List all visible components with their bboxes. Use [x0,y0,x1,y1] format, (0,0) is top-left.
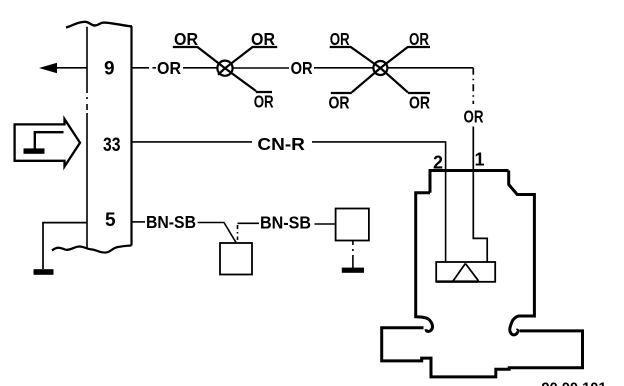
junction dashed drop to box B1 [237,225,239,240]
wire corner down dash-dot [472,68,474,104]
wire junction to second BN-SB label [238,222,260,224]
connector strip left edge [86,27,88,248]
solenoid valve bracket base outline [382,328,583,377]
svg-text:5: 5 [105,210,116,231]
solenoid coil box [436,262,495,282]
svg-text:1: 1 [475,150,485,170]
splice S1 circle [217,61,232,76]
svg-text:OR: OR [157,58,181,78]
splice S1 branch top-right [225,47,277,68]
box B1 (connector block) [220,243,252,275]
connector strip torn bottom edge [52,246,132,253]
ground G1 bar [34,269,54,275]
svg-text:OR: OR [409,93,430,113]
wire pin 9 to off-page arrow [57,67,88,69]
svg-text:OR: OR [254,91,274,111]
wire pin 33 to CN-R label [132,141,253,143]
splice S1 branch bottom-right [225,68,272,92]
splice S2 branch bottom-left [331,68,381,93]
wire splice S2 to corner [388,67,473,69]
coil box bottom emphasis [436,280,478,282]
svg-text:9: 9 [104,59,115,80]
wire BN-SB to bend [198,223,237,243]
solenoid coil triangle [453,264,479,282]
wire splice S1 to mid OR label [233,67,290,69]
splice S2 branch bottom-right [380,68,430,93]
wire second BN-SB to box B2 [315,223,336,225]
solenoid valve body upper outline [416,171,535,335]
connector strip torn top edge [66,22,132,28]
svg-text:OR: OR [409,29,429,49]
svg-text:OR: OR [291,58,313,78]
wire pin 5 stub [132,221,146,223]
ground G2 bar [342,268,364,273]
svg-text:CN-R: CN-R [257,134,305,154]
svg-text:BN-SB: BN-SB [146,212,196,232]
wire pin 9 stub to OR label [132,67,157,69]
splice S2 circle [373,61,387,75]
connector strip right edge [130,26,132,245]
svg-text:OR: OR [329,93,350,113]
svg-text:OR: OR [464,107,484,127]
svg-text:OR: OR [330,29,350,49]
wire CN-R label to corner and down to component pin 2 [312,142,446,262]
splice S2 branch top-right [380,47,430,68]
splice S1 branch top-left [173,47,225,68]
wire strip left to ground G1 [43,223,87,269]
wire mid OR label to splice S2 [314,67,373,69]
svg-text:BN-SB: BN-SB [260,213,311,233]
wire box B2 to ground (dash-dot) [352,241,354,269]
off-page arrowhead (filled, pointing left) [39,63,57,73]
svg-text:90 00 101: 90 00 101 [542,379,607,386]
box B2 (connector block) [336,209,369,241]
wire OR label down to component pin 1 [473,127,487,262]
splice S1 X stub bottom-left [218,68,225,75]
splice S2 branch top-left [330,47,381,68]
off-page connector arrow box U-left [15,119,80,167]
wire OR label to splice S1 [183,67,218,69]
svg-text:33: 33 [103,135,121,156]
symbol inside arrow box (line with ground bar) [35,132,64,148]
svg-text:OR: OR [251,29,275,49]
symbol ground bar inside arrow box [24,148,45,153]
svg-text:OR: OR [174,29,198,49]
